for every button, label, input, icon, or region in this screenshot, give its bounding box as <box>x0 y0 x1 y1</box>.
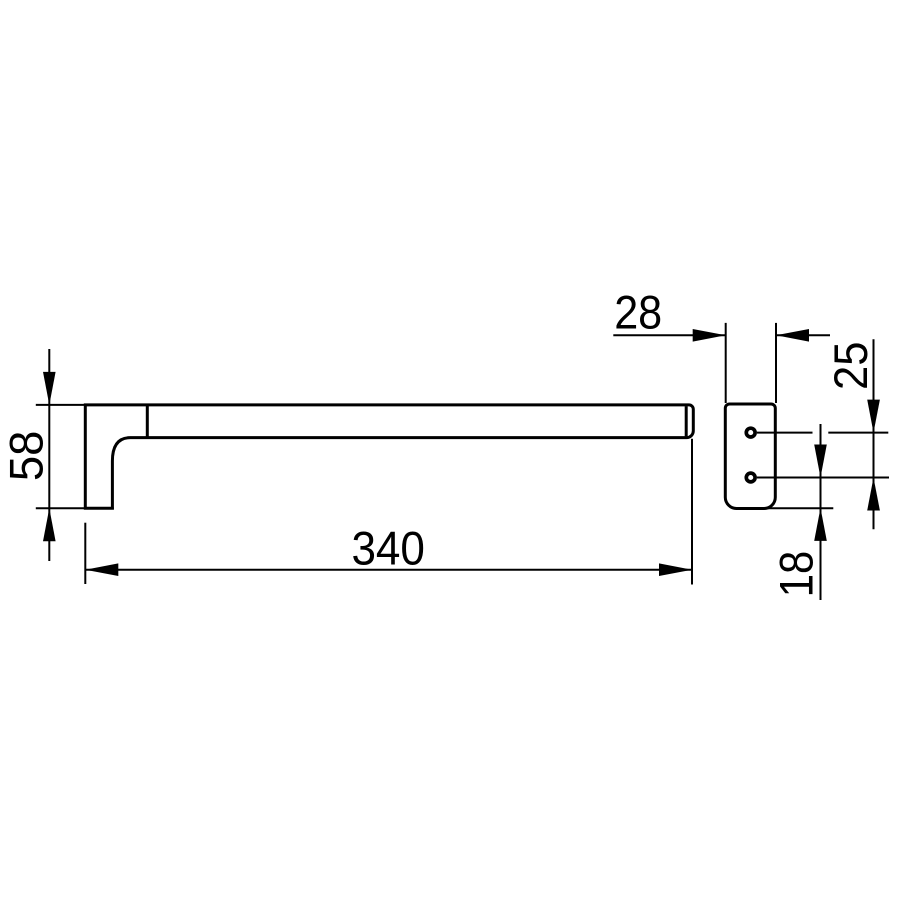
hole bottom <box>746 473 755 482</box>
dim 340 extension right <box>691 439 693 585</box>
svg-text:18: 18 <box>771 551 824 598</box>
dim 340 extension left <box>84 523 86 584</box>
dim 58 extension top <box>36 404 86 406</box>
dim 28 arrow right-pointing <box>693 329 726 342</box>
svg-text:340: 340 <box>351 523 425 576</box>
hole bottom leader line <box>757 477 889 479</box>
dim 58 extension bottom <box>36 507 114 509</box>
hole top leader line segment a <box>757 432 813 434</box>
dim 18 arrow down <box>814 445 827 478</box>
dim 340 arrow right <box>659 563 692 576</box>
side view seam line right end cap <box>685 406 688 436</box>
dim 58 line <box>48 349 50 561</box>
dim 340 line <box>85 569 692 571</box>
plate bottom extension line <box>768 507 833 509</box>
side view bracket outline <box>85 405 693 508</box>
dim 28 arrow left-pointing <box>776 329 809 342</box>
end view wall plate <box>725 404 775 509</box>
hole top <box>746 428 755 437</box>
dim 25 arrow up <box>867 478 880 511</box>
svg-text:28: 28 <box>614 287 662 340</box>
dim 25 arrow down <box>867 400 880 433</box>
dim 340 arrow left <box>85 563 118 576</box>
dim 58 arrow down <box>43 372 56 405</box>
dim 28 line right part <box>776 334 830 336</box>
side view seam line left <box>146 405 149 438</box>
dim 18 line <box>820 424 822 600</box>
dim 25 line <box>873 339 875 529</box>
dim 28 line left part <box>613 334 725 336</box>
dim 18 arrow up <box>814 508 827 541</box>
dim 28 extension left <box>725 323 727 403</box>
dim 28 extension right <box>775 323 777 403</box>
svg-text:25: 25 <box>825 342 878 391</box>
svg-text:58: 58 <box>0 431 53 482</box>
hole top leader line segment b <box>828 432 888 434</box>
dim 58 arrow up <box>43 508 56 541</box>
